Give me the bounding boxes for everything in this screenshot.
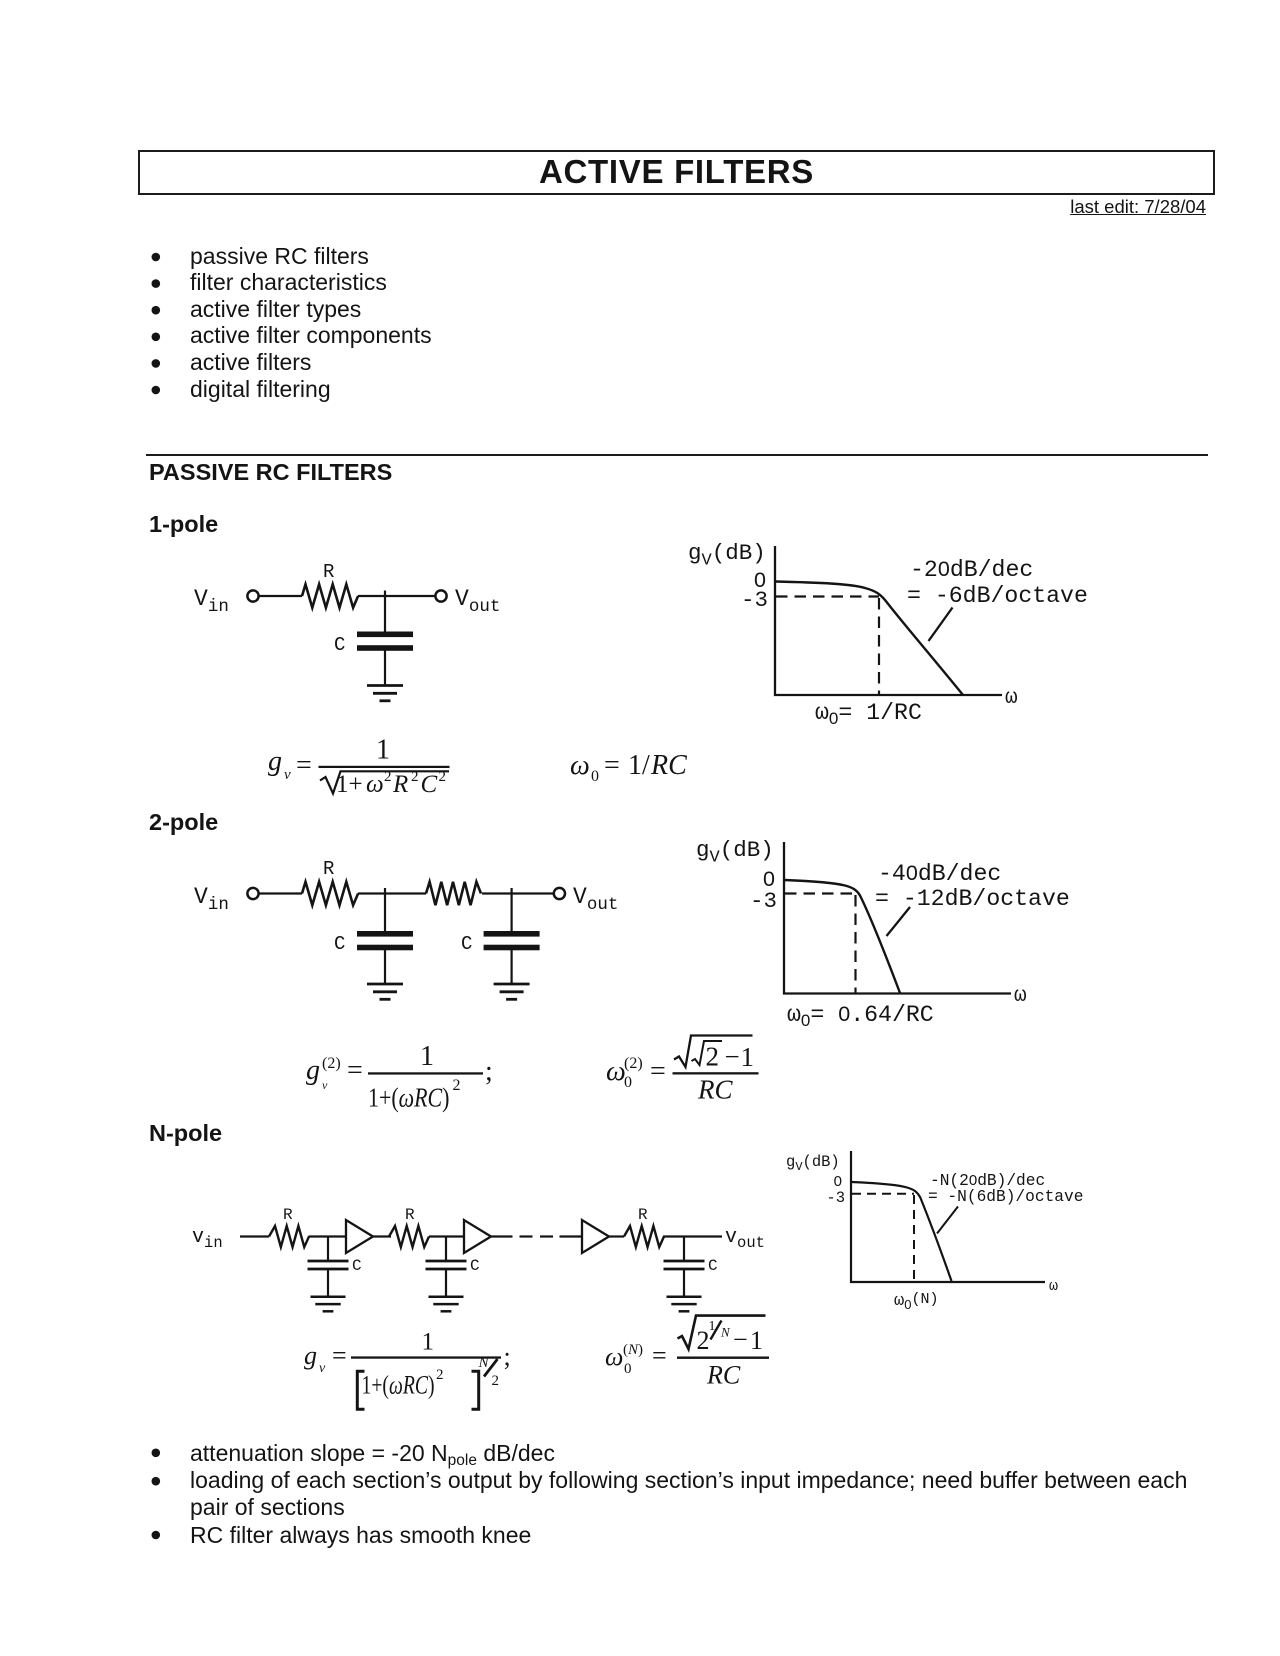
op-amp buffer 2 (N-pole) <box>464 1220 491 1253</box>
wire C1 to ground (N-pole) <box>327 1269 329 1297</box>
wire R3 to vout <box>663 1235 722 1237</box>
svg-text:1: 1 <box>376 735 390 766</box>
heading 2-pole <box>149 810 218 834</box>
svg-text:g: g <box>304 1341 317 1370</box>
svg-text:0: 0 <box>624 1361 632 1377</box>
terminal circle Vout <box>435 590 446 601</box>
svg-text:-40dB/dec: -40dB/dec <box>878 861 1001 887</box>
terminal circle Vout (2-pole) <box>554 888 565 899</box>
svg-text:gV(dB): gV(dB) <box>688 540 766 571</box>
ground 2 (2-pole) <box>494 983 530 986</box>
svg-text:−: − <box>733 1325 748 1354</box>
wire Vin to R1 (2-pole) <box>259 892 302 894</box>
svg-text:gV(dB): gV(dB) <box>696 837 774 868</box>
svg-text:0: 0 <box>624 1074 632 1091</box>
capacitor C3 (N-pole) <box>664 1260 705 1263</box>
svg-text:ω: ω <box>605 1342 623 1371</box>
svg-text:2: 2 <box>436 1367 444 1383</box>
wire C2 to ground (2-pole) <box>511 950 513 985</box>
wire junction1 to capacitor C1 (2-pole) <box>384 888 386 931</box>
svg-text:ω0= 1/RC: ω0= 1/RC <box>815 700 922 728</box>
svg-text:−: − <box>725 1042 740 1072</box>
wire Vin to R <box>259 595 302 597</box>
graph1 response curve <box>776 582 964 696</box>
svg-text:RC: RC <box>650 750 687 781</box>
last edit note <box>1070 197 1206 217</box>
svg-text:=: = <box>604 750 620 781</box>
svg-text:R: R <box>283 1206 293 1224</box>
svg-text:2: 2 <box>439 769 447 785</box>
svg-text:ω: ω <box>570 750 590 781</box>
bullet dot <box>152 359 161 368</box>
svg-text:=: = <box>296 750 312 781</box>
svg-text:-3: -3 <box>826 1189 845 1207</box>
svg-text:ω0(N): ω0(N) <box>894 1291 938 1312</box>
svg-text:C: C <box>421 771 438 798</box>
graph1 dashed -3dB level <box>776 595 879 597</box>
svg-text:1+: 1+ <box>336 771 363 798</box>
heading N-pole <box>149 1121 222 1145</box>
svg-text:C: C <box>470 1257 480 1275</box>
wire R2 to Vout (2-pole) <box>482 892 554 894</box>
svg-text:R: R <box>638 1206 648 1224</box>
svg-text:vout: vout <box>725 1226 765 1252</box>
svg-text:-3: -3 <box>741 587 768 613</box>
svg-text:Vin: Vin <box>194 884 229 915</box>
formula gv = 1/[1+(wRC)^2]^(N/2) <box>304 1329 511 1410</box>
capacitor C1 (2-pole) <box>357 931 413 937</box>
formula gv(2) = 1/(1+(wRC)^2) <box>306 1041 493 1113</box>
graph1 annotation pointer <box>929 608 953 642</box>
svg-text:C: C <box>461 933 472 955</box>
graph2 axes <box>784 842 1011 994</box>
svg-text:ω: ω <box>1005 687 1018 710</box>
svg-text:(2): (2) <box>624 1055 643 1072</box>
svg-text:ω: ω <box>1014 985 1027 1008</box>
formula w0(N) = sqrt(2^(1/N)-1)/RC <box>605 1316 769 1390</box>
bullet dot <box>152 253 161 262</box>
svg-text:g: g <box>306 1055 320 1086</box>
svg-text:1: 1 <box>741 1042 755 1072</box>
svg-text:0: 0 <box>834 1173 842 1190</box>
ground (1-pole) <box>367 684 403 687</box>
svg-text:= -6dB/octave: = -6dB/octave <box>907 583 1088 609</box>
svg-text:(N): (N) <box>623 1342 643 1358</box>
bullet dot <box>152 279 161 288</box>
bullet dot <box>152 1531 161 1540</box>
heading PASSIVE RC FILTERS <box>149 460 392 484</box>
svg-text:v: v <box>319 1361 326 1376</box>
wire C3 to ground (N-pole) <box>683 1269 685 1297</box>
svg-text:C: C <box>352 1257 362 1275</box>
svg-text:N: N <box>478 1355 490 1371</box>
svg-text:= -12dB/octave: = -12dB/octave <box>875 886 1070 912</box>
graph2 dashed -3dB level <box>785 892 855 894</box>
svg-text:R: R <box>323 561 334 583</box>
top bullet list text <box>190 243 432 403</box>
wire junction3 to C3 (N-pole) <box>683 1237 685 1261</box>
svg-text:ω: ω <box>366 771 384 798</box>
resistor R2 (N-pole) <box>389 1226 429 1247</box>
ground 3 (N-pole) <box>667 1295 702 1298</box>
wire buffer2 to dots <box>491 1235 513 1237</box>
svg-text:ω: ω <box>606 1056 626 1087</box>
svg-text:Vout: Vout <box>455 586 500 617</box>
svg-text:= -N(6dB)/octave: = -N(6dB)/octave <box>928 1188 1083 1206</box>
wire vin to R1 (N-pole) <box>240 1235 269 1237</box>
svg-text:gV(dB): gV(dB) <box>786 1153 840 1174</box>
capacitor C2 (N-pole) <box>426 1260 467 1263</box>
svg-text:Vin: Vin <box>194 586 229 617</box>
svg-text:vin: vin <box>192 1226 223 1252</box>
wire junction2 to C2 (N-pole) <box>445 1237 447 1261</box>
bullet dot <box>152 333 161 342</box>
svg-text:=: = <box>347 1055 363 1086</box>
svg-text:=: = <box>332 1341 347 1370</box>
svg-text:2: 2 <box>706 1042 720 1072</box>
svg-text:C: C <box>334 933 345 955</box>
svg-text:-20dB/dec: -20dB/dec <box>910 557 1033 583</box>
formula gv = 1/sqrt(1+w2R2C2) <box>268 735 450 799</box>
svg-text:2: 2 <box>453 1077 461 1094</box>
wire R1 to buffer1 <box>309 1235 347 1237</box>
svg-text:R: R <box>323 858 334 880</box>
title box <box>138 150 1215 195</box>
resistor R1 (2-pole) <box>302 882 358 905</box>
svg-text:-3: -3 <box>750 888 777 914</box>
resistor R (1-pole) <box>302 584 358 607</box>
svg-text:v: v <box>322 1078 328 1092</box>
graph3 dashed cutoff frequency <box>913 1195 915 1282</box>
svg-text:C: C <box>334 634 345 656</box>
svg-text:1+(ωRC): 1+(ωRC) <box>362 1371 435 1400</box>
capacitor C2 (2-pole) <box>484 931 540 937</box>
wire capacitor to ground <box>384 650 386 685</box>
graph2 dashed cutoff frequency <box>854 895 856 993</box>
wire junction2 to capacitor C2 (2-pole) <box>511 888 513 931</box>
graph3 axes <box>851 1151 1045 1282</box>
svg-text:C: C <box>708 1257 718 1275</box>
svg-text:=: = <box>652 1341 667 1370</box>
svg-text:N: N <box>720 1325 731 1340</box>
wire C2 to ground (N-pole) <box>445 1269 447 1297</box>
svg-text:1: 1 <box>422 1329 435 1356</box>
heading 1-pole <box>149 512 218 536</box>
ground 1 (N-pole) <box>311 1295 346 1298</box>
bullet dot <box>152 306 161 315</box>
svg-text:1: 1 <box>420 1041 434 1072</box>
title text <box>138 152 1215 192</box>
wire R1 to R2 (2-pole) <box>358 892 426 894</box>
wire dots to buffer3 <box>560 1235 583 1237</box>
terminal circle Vin <box>247 590 258 601</box>
wire C1 to ground (2-pole) <box>384 950 386 985</box>
svg-text:RC: RC <box>706 1361 741 1390</box>
bullet dot <box>152 386 161 395</box>
svg-text:2: 2 <box>492 1373 500 1389</box>
bullet dot <box>152 1477 161 1486</box>
svg-text:2: 2 <box>411 769 419 785</box>
wire R2 to buffer2 <box>429 1235 464 1237</box>
svg-text:1/: 1/ <box>628 750 650 781</box>
graph1 axes <box>775 546 1002 695</box>
ground 2 (N-pole) <box>429 1295 464 1298</box>
capacitor C1 (N-pole) <box>308 1260 349 1263</box>
resistor R1 (N-pole) <box>269 1226 309 1247</box>
terminal circle Vin (2-pole) <box>247 888 258 899</box>
svg-text:R: R <box>405 1206 415 1224</box>
op-amp buffer 1 (N-pole) <box>346 1220 373 1253</box>
wire dashed continuation dots <box>520 1235 533 1237</box>
resistor R2 (2-pole, unlabeled) <box>426 882 481 905</box>
svg-text:ω: ω <box>1049 1278 1058 1295</box>
svg-text:v: v <box>284 767 291 783</box>
svg-text:;: ; <box>504 1342 511 1371</box>
svg-text:=: = <box>650 1056 666 1087</box>
ground 1 (2-pole) <box>367 983 403 986</box>
wire junction to capacitor <box>384 591 386 632</box>
svg-text:RC: RC <box>697 1075 733 1105</box>
capacitor C (1-pole) <box>357 632 413 638</box>
wire junction1 to C1 (N-pole) <box>327 1237 329 1261</box>
wire R to Vout <box>358 595 435 597</box>
graph3 annotation pointer <box>937 1207 958 1234</box>
svg-text:2: 2 <box>384 769 392 785</box>
svg-text:Vout: Vout <box>573 884 618 915</box>
svg-text:0: 0 <box>591 768 599 785</box>
graph2 response curve <box>785 880 901 993</box>
wire buffer1 to R2 <box>373 1235 391 1237</box>
svg-text:;: ; <box>485 1056 493 1087</box>
graph3 response curve <box>852 1182 952 1281</box>
svg-text:1: 1 <box>750 1326 763 1355</box>
svg-text:g: g <box>268 746 282 777</box>
graph3 dashed -3dB level <box>852 1193 914 1195</box>
svg-text:R: R <box>392 771 408 798</box>
section rule <box>146 454 1208 456</box>
svg-text:1+(ωRC): 1+(ωRC) <box>368 1083 450 1113</box>
bullet dot <box>152 1449 161 1458</box>
graph2 annotation pointer <box>887 907 911 936</box>
bottom bullet list text <box>190 1440 1235 1549</box>
formula w0 = 1/RC <box>570 750 687 785</box>
formula w0(2) = sqrt(sqrt2-1)/RC <box>606 1036 759 1105</box>
resistor R3 (N-pole) <box>624 1226 664 1247</box>
graph1 dashed cutoff frequency <box>878 598 880 695</box>
op-amp buffer 3 (N-pole) <box>582 1220 609 1253</box>
svg-text:ω0= 0.64/RC: ω0= 0.64/RC <box>787 1002 934 1030</box>
svg-text:(2): (2) <box>322 1055 341 1072</box>
wire buffer3 to R3 <box>609 1235 624 1237</box>
